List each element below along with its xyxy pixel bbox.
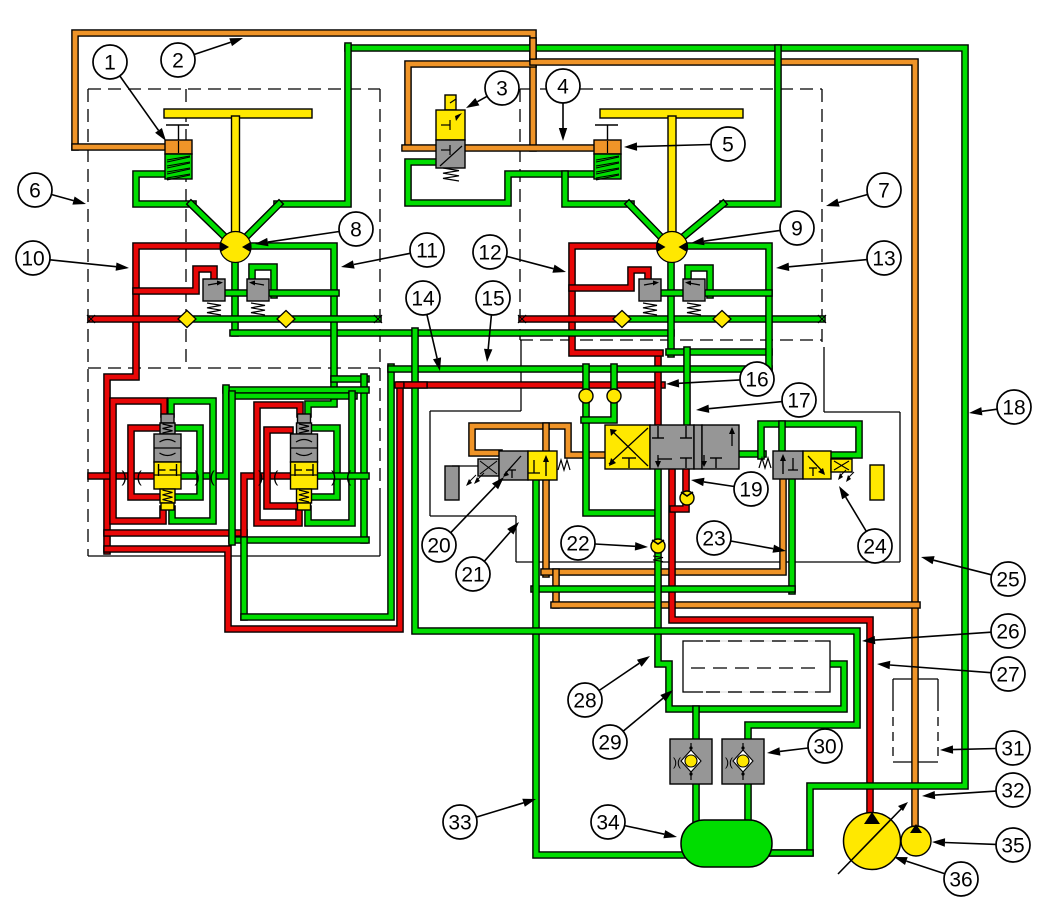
- svg-text:17: 17: [787, 390, 810, 413]
- svg-text:26: 26: [996, 621, 1019, 644]
- svg-text:12: 12: [478, 242, 501, 265]
- svg-text:29: 29: [598, 732, 621, 755]
- svg-text:15: 15: [481, 288, 504, 311]
- svg-text:14: 14: [411, 288, 435, 311]
- svg-text:6: 6: [29, 180, 41, 203]
- svg-text:)(: )(: [725, 755, 733, 769]
- svg-text:35: 35: [1001, 835, 1024, 858]
- svg-text:22: 22: [566, 533, 589, 556]
- svg-text:23: 23: [702, 528, 725, 551]
- svg-text:3: 3: [496, 78, 508, 101]
- svg-text:(: (: [273, 469, 279, 486]
- svg-text:): ): [258, 469, 263, 486]
- svg-text:16: 16: [745, 369, 768, 392]
- svg-text:4: 4: [557, 76, 569, 99]
- svg-text:13: 13: [872, 248, 895, 271]
- svg-text:5: 5: [722, 134, 734, 157]
- svg-text:28: 28: [573, 690, 596, 713]
- svg-text:32: 32: [1001, 780, 1024, 803]
- svg-text:20: 20: [427, 535, 450, 558]
- svg-text:11: 11: [416, 240, 438, 263]
- svg-text:1: 1: [104, 52, 116, 75]
- svg-text:30: 30: [813, 736, 836, 759]
- svg-text:(: (: [137, 469, 143, 486]
- svg-text:27: 27: [996, 664, 1019, 687]
- svg-text:8: 8: [350, 219, 362, 242]
- svg-text:33: 33: [448, 812, 471, 835]
- svg-text:): ): [122, 469, 127, 486]
- svg-text:19: 19: [739, 479, 762, 502]
- svg-text:25: 25: [996, 569, 1019, 592]
- svg-text:34: 34: [596, 812, 620, 835]
- svg-text:21: 21: [461, 564, 484, 587]
- svg-text:36: 36: [949, 869, 972, 892]
- svg-text:10: 10: [21, 248, 44, 271]
- svg-text:)(: )(: [673, 755, 681, 769]
- svg-text:): ): [195, 469, 200, 486]
- svg-text:18: 18: [1002, 397, 1025, 420]
- svg-text:2: 2: [172, 50, 184, 73]
- svg-text:24: 24: [863, 536, 887, 559]
- svg-text:7: 7: [878, 180, 890, 203]
- svg-text:31: 31: [1001, 738, 1024, 761]
- svg-text:(: (: [346, 469, 352, 486]
- svg-text:(: (: [210, 469, 216, 486]
- svg-text:9: 9: [791, 218, 803, 241]
- svg-text:): ): [331, 469, 336, 486]
